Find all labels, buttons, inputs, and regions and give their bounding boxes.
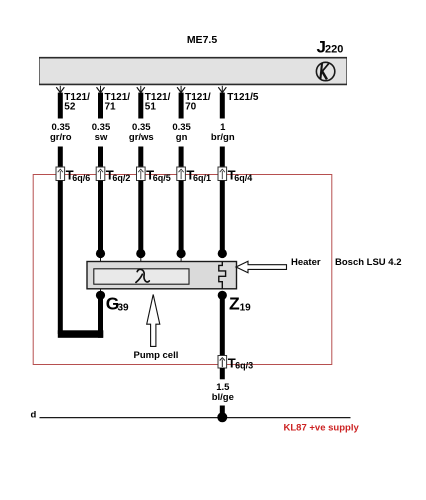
- svg-text:Heater: Heater: [291, 257, 321, 268]
- svg-text:71: 71: [105, 102, 117, 113]
- svg-text:51: 51: [145, 102, 157, 113]
- svg-text:6q/3: 6q/3: [235, 361, 253, 371]
- svg-text:6q/4: 6q/4: [234, 173, 252, 183]
- svg-text:39: 39: [118, 302, 130, 313]
- svg-text:Bosch LSU 4.2: Bosch LSU 4.2: [335, 257, 402, 268]
- svg-text:br/gn: br/gn: [211, 132, 235, 143]
- svg-text:6q/1: 6q/1: [193, 173, 211, 183]
- svg-text:T121/5: T121/5: [227, 92, 259, 103]
- svg-text:bl/ge: bl/ge: [212, 392, 234, 403]
- svg-text:19: 19: [240, 302, 252, 313]
- svg-text:Z: Z: [229, 294, 240, 314]
- svg-text:6q/6: 6q/6: [72, 173, 90, 183]
- svg-text:70: 70: [185, 102, 197, 113]
- svg-text:52: 52: [64, 102, 76, 113]
- svg-text:sw: sw: [95, 132, 108, 143]
- svg-text:d: d: [31, 410, 37, 421]
- svg-text:ME7.5: ME7.5: [187, 34, 218, 46]
- svg-text:gr/ro: gr/ro: [50, 132, 72, 143]
- svg-text:gr/ws: gr/ws: [129, 132, 154, 143]
- svg-text:KL87 +ve supply: KL87 +ve supply: [284, 422, 360, 433]
- svg-text:gn: gn: [176, 132, 188, 143]
- svg-text:220: 220: [325, 44, 343, 56]
- svg-text:6q/5: 6q/5: [153, 173, 171, 183]
- svg-text:6q/2: 6q/2: [112, 173, 130, 183]
- svg-text:Pump cell: Pump cell: [134, 350, 179, 361]
